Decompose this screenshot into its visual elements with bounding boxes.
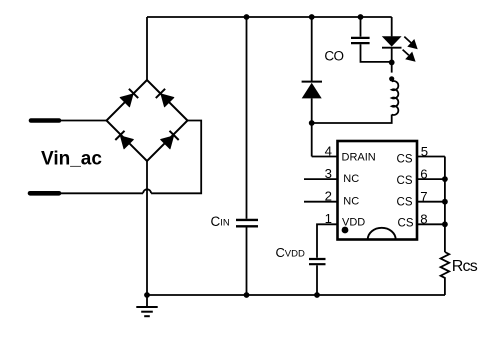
capacitor CIN bbox=[236, 220, 258, 226]
wire: top rail corner down to LED bbox=[391, 17, 393, 36]
svg-text:VDD: VDD bbox=[285, 249, 305, 260]
bridge diode D2 (top-right edge, arrow to top vertex) bbox=[156, 89, 174, 107]
IC notch (bottom-edge semicircle) bbox=[368, 228, 396, 240]
input terminal T2 (bottom) bbox=[30, 191, 59, 196]
wire: CS bus vertical bbox=[444, 157, 446, 253]
svg-text:NC: NC bbox=[343, 173, 359, 185]
wire: bridge bottom vertex down to ground node bbox=[146, 161, 148, 295]
svg-text:C: C bbox=[276, 245, 285, 260]
svg-text:8: 8 bbox=[420, 212, 427, 227]
svg-text:6: 6 bbox=[420, 166, 427, 181]
wire: bottom terminal to hop bbox=[59, 192, 143, 194]
inductor L1 bbox=[312, 62, 399, 123]
node: diode/inductor junction bbox=[309, 120, 315, 126]
svg-text:4: 4 bbox=[325, 143, 332, 158]
ground bbox=[136, 295, 157, 316]
LED emission arrow 1 bbox=[404, 37, 411, 43]
wire: bridge top vertex up to top rail bbox=[146, 17, 148, 80]
bridge diode D1 (top-left edge, arrow to top vertex) bbox=[120, 89, 138, 107]
svg-text:5: 5 bbox=[421, 144, 428, 159]
wire: bottom rail bbox=[147, 294, 445, 296]
svg-text:CS: CS bbox=[397, 153, 413, 165]
node: CIN top junction bbox=[244, 14, 250, 20]
pin 8 lead (CS) bbox=[417, 223, 445, 225]
svg-text:CO: CO bbox=[324, 48, 343, 63]
IC pin-1 dot bbox=[342, 227, 349, 234]
pin 2 lead (NC) bbox=[304, 201, 338, 203]
LED D5 bbox=[382, 17, 418, 62]
node: pin8 junction bbox=[442, 221, 448, 227]
bridge rectifier diamond bbox=[107, 80, 188, 161]
svg-text:DRAIN: DRAIN bbox=[342, 152, 376, 164]
wire: pin 4 lead bbox=[312, 156, 338, 158]
svg-text:2: 2 bbox=[325, 189, 332, 204]
capacitor CO bbox=[351, 38, 370, 43]
node: pin6 junction bbox=[442, 176, 448, 182]
pin 5 lead (CS) bbox=[417, 156, 445, 158]
svg-text:IN: IN bbox=[220, 218, 230, 229]
op IC U1 body bbox=[338, 141, 418, 240]
node: pin7 junction bbox=[442, 199, 448, 205]
pin 7 lead (CS) bbox=[417, 201, 445, 203]
wire: CO lower lead to LED cathode node bbox=[361, 44, 392, 62]
wire hop over vertical wire bbox=[143, 189, 151, 193]
wire: CIN upper lead bbox=[246, 17, 248, 219]
svg-text:1: 1 bbox=[325, 211, 332, 226]
resistor Rcs bbox=[441, 252, 450, 295]
wire: hop to corner and up to bridge right vertex bbox=[151, 121, 201, 194]
svg-text:NC: NC bbox=[343, 196, 359, 208]
wire: top rail to diode cathode bbox=[311, 17, 313, 81]
LED emission arrow 2 bbox=[403, 50, 409, 56]
svg-text:7: 7 bbox=[420, 189, 427, 204]
svg-text:CS: CS bbox=[397, 197, 413, 209]
diode D6 (freewheeling, on drain branch) bbox=[302, 17, 322, 157]
node: CO top junction bbox=[358, 14, 364, 20]
inductor polarity dot bbox=[389, 76, 394, 81]
node: diode branch junction on top rail bbox=[309, 14, 315, 20]
node: ground junction bbox=[144, 292, 150, 298]
bridge diode D4 (bottom-right edge, arrow to right vertex) bbox=[161, 131, 179, 149]
wire: top terminal to bridge left vertex bbox=[59, 120, 107, 122]
node: CVDD bottom junction bbox=[314, 292, 320, 298]
pin 6 lead (CS) bbox=[417, 178, 445, 180]
node: LED/inductor junction bbox=[389, 60, 395, 66]
svg-text:Rcs: Rcs bbox=[452, 258, 478, 275]
capacitor CVDD bbox=[309, 259, 326, 264]
svg-text:C: C bbox=[211, 214, 221, 229]
wire: CVDD lower lead bbox=[316, 265, 318, 295]
svg-text:VDD: VDD bbox=[342, 216, 365, 228]
input terminal T1 (top) bbox=[31, 118, 59, 123]
svg-text:CS: CS bbox=[397, 175, 413, 187]
svg-text:CS: CS bbox=[398, 218, 414, 230]
wire: CO upper lead bbox=[360, 17, 362, 37]
node: CIN bottom junction bbox=[244, 292, 250, 298]
pin 1 lead (VDD) bbox=[317, 224, 338, 257]
wire: top rail bbox=[147, 16, 392, 18]
svg-text:3: 3 bbox=[325, 166, 332, 181]
wire: CIN lower lead bbox=[246, 228, 248, 296]
bridge diode D3 (bottom-left edge, arrow to left vertex) bbox=[115, 131, 133, 149]
svg-text:Vin_ac: Vin_ac bbox=[41, 148, 102, 169]
pin 3 lead (NC) bbox=[304, 178, 338, 180]
